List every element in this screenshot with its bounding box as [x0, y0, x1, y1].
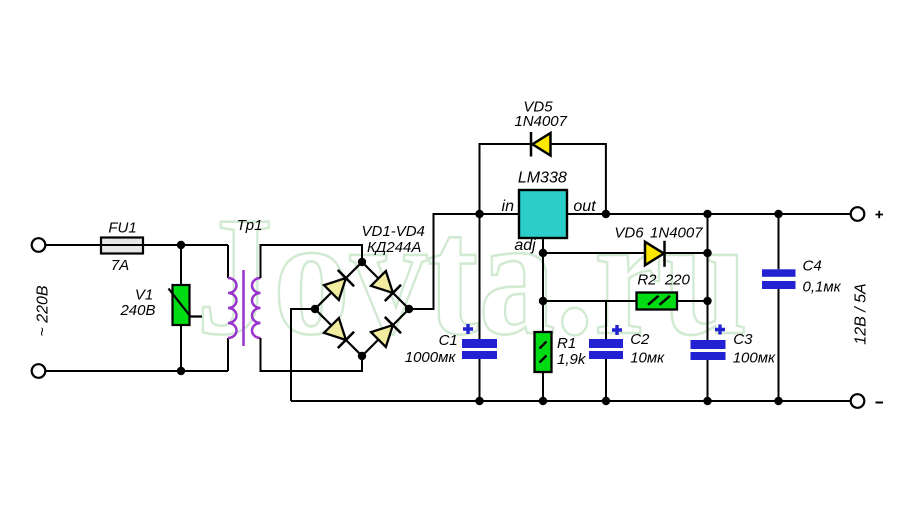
junction input top	[177, 241, 185, 249]
svg-text:R1: R1	[557, 335, 576, 352]
svg-text:1,9k: 1,9k	[557, 351, 587, 368]
diode VD1 top-left	[323, 270, 354, 301]
secondary winding	[252, 278, 261, 338]
wire primary top lead	[227, 245, 229, 278]
wire out rail	[567, 213, 851, 215]
bridge rectifier VD1-VD4	[311, 258, 413, 360]
svg-text:VD1-VD4: VD1-VD4	[362, 223, 425, 240]
svg-text:C1: C1	[439, 332, 458, 349]
polarity plus sign	[876, 211, 884, 219]
resistor R2	[637, 293, 678, 310]
fuse FU1	[101, 238, 143, 254]
svg-text:10мк: 10мк	[630, 350, 665, 367]
wire adj pin	[542, 238, 544, 301]
node ground C4	[774, 397, 782, 405]
wire adj to VD6	[543, 252, 708, 254]
node R1 top	[539, 297, 547, 305]
capacitor C1	[462, 214, 497, 401]
regulator U1 LM338	[519, 190, 567, 238]
svg-text:КД244А: КД244А	[367, 239, 421, 256]
wire primary bottom lead	[227, 338, 229, 371]
transformer Tp1	[228, 245, 362, 371]
svg-text:240В: 240В	[119, 302, 155, 319]
diode VD3 bottom-left	[323, 317, 354, 348]
node bridge left	[311, 305, 319, 313]
node out	[602, 210, 610, 218]
svg-text:LM338: LM338	[518, 170, 567, 187]
wire bridge plus to in rail	[409, 214, 519, 309]
svg-text:out: out	[573, 198, 596, 215]
svg-text:VD6: VD6	[614, 225, 644, 242]
svg-text:R2 220: R2 220	[637, 272, 690, 289]
core	[242, 270, 245, 346]
node bridge bottom	[358, 352, 366, 360]
svg-text:Tp1: Tp1	[237, 217, 263, 234]
svg-text:V1: V1	[135, 287, 153, 304]
node bridge right	[405, 305, 413, 313]
wire ground rail	[291, 400, 851, 402]
wire input bottom	[46, 370, 229, 372]
svg-text:C4: C4	[803, 258, 822, 275]
svg-text:adj: adj	[514, 237, 536, 254]
svg-text:in: in	[502, 198, 515, 215]
svg-text:1N4007: 1N4007	[650, 225, 703, 242]
primary winding	[228, 278, 237, 338]
wire bridge minus to ground rail	[291, 309, 315, 401]
node R2 right	[703, 297, 711, 305]
resistor R1	[535, 301, 552, 401]
svg-text:~ 220В: ~ 220В	[35, 285, 52, 336]
diode VD2 top-right	[370, 270, 401, 301]
node ground C3	[703, 397, 711, 405]
node ground C2	[602, 397, 610, 405]
wire R2 line	[543, 300, 637, 302]
svg-text:C3: C3	[733, 331, 753, 348]
terminal output plus	[851, 207, 865, 221]
terminal input top	[32, 238, 46, 252]
capacitor C3	[691, 214, 726, 401]
node out rail C4	[774, 210, 782, 218]
node ground R1	[539, 397, 547, 405]
wire R2 right	[677, 300, 708, 302]
node adj	[539, 249, 547, 257]
svg-text:C2: C2	[630, 331, 650, 348]
svg-text:1N4007: 1N4007	[514, 113, 567, 130]
capacitor C2	[589, 301, 623, 401]
node out rail C3	[703, 210, 711, 218]
wire varistor branch	[180, 245, 182, 371]
wire secondary top lead	[261, 245, 363, 278]
node bridge top	[358, 258, 366, 266]
svg-text:FU1: FU1	[108, 220, 136, 237]
wire input top	[46, 244, 229, 246]
varistor V1	[169, 285, 203, 325]
terminal input bottom	[32, 364, 46, 378]
svg-text:12В / 5А: 12В / 5А	[853, 283, 870, 344]
polarity minus sign	[876, 402, 884, 404]
diode VD5	[531, 132, 551, 157]
node in	[475, 210, 483, 218]
svg-text:0,1мк: 0,1мк	[803, 279, 842, 296]
node ground C1	[475, 397, 483, 405]
diode VD4 bottom-right	[370, 317, 401, 348]
capacitor C4	[762, 214, 796, 401]
svg-text:100мк: 100мк	[733, 350, 776, 367]
junction input bottom	[177, 367, 185, 375]
diode VD6	[645, 241, 665, 267]
wire through fuse	[101, 244, 143, 246]
wire secondary bottom lead	[261, 338, 363, 371]
node VD6 cathode rail	[703, 249, 711, 257]
svg-text:7A: 7A	[111, 257, 129, 274]
wire VD5 loop	[480, 144, 606, 214]
terminal output minus	[851, 394, 865, 408]
svg-text:1000мк: 1000мк	[405, 349, 457, 366]
wire bridge edges	[315, 262, 409, 356]
